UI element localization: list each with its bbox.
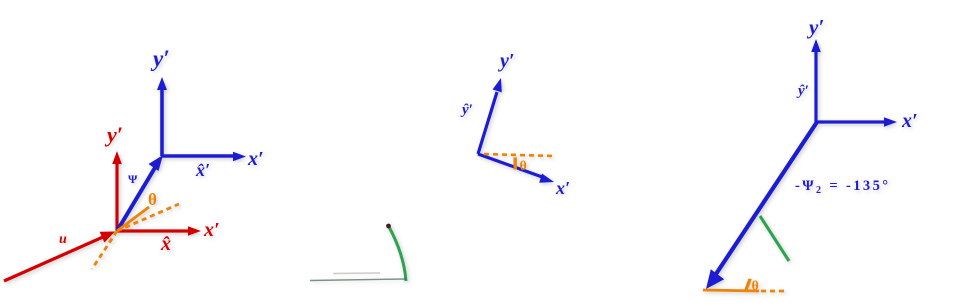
orange dashed extension (down-left) [92, 231, 117, 269]
svg-text:x̂: x̂ [160, 233, 171, 255]
dark point at top of green curve (panel 2) [386, 224, 391, 229]
axis y (red frame) [112, 151, 122, 231]
orange dashed ray (up-right) [117, 204, 179, 231]
orange dashed horizontal reference line (panel 2) [484, 154, 553, 156]
svg-text:-Ψ2 = -135°: -Ψ2 = -135° [795, 178, 890, 196]
orange baseline solid (panel 3) [703, 290, 759, 291]
svg-text:θ: θ [520, 159, 527, 174]
svg-text:u: u [59, 232, 67, 247]
axis y' (blue frame, panel 3) [811, 39, 821, 122]
green segment (panel 3) [760, 216, 789, 261]
svg-text:x′: x′ [203, 219, 220, 241]
svg-text:x̂′: x̂′ [195, 160, 210, 180]
faint maroon smear (panel 2) [333, 272, 380, 275]
axis x' (blue frame, panel 3) [817, 117, 897, 127]
svg-text:y′: y′ [806, 15, 824, 39]
axis y' (blue frame) [157, 77, 167, 156]
vector u (red) [4, 232, 115, 282]
svg-text:ŷ′: ŷ′ [460, 102, 473, 118]
svg-text:θ: θ [752, 279, 759, 294]
svg-text:x′: x′ [901, 110, 918, 132]
long vector (blue, panel 3) [706, 122, 817, 289]
svg-text:ŷ′: ŷ′ [796, 83, 809, 99]
axis x' tilted (blue frame, panel 2) [478, 154, 554, 183]
axis x (red frame) [117, 226, 201, 236]
axis y' tilted (blue frame, panel 2) [478, 78, 502, 154]
label Psi-t (orange, panel 3) [744, 279, 752, 291]
svg-text:x′: x′ [247, 148, 264, 170]
label minus theta (orange, panel 2) [514, 158, 517, 170]
svg-text:y′: y′ [498, 50, 515, 72]
svg-text:y′: y′ [104, 122, 123, 147]
orange baseline dashed (panel 3) [761, 290, 787, 293]
vector R (blue, from red origin to blue origin) [117, 155, 163, 231]
svg-text:θ: θ [148, 190, 157, 209]
orange solid ray at angle [117, 207, 149, 231]
svg-text:Ψ: Ψ [128, 172, 138, 186]
green curved trajectory (panel 2) [388, 225, 406, 281]
svg-text:y′: y′ [150, 46, 170, 71]
faint ground line (panel 2) [310, 279, 406, 281]
svg-text:x′: x′ [555, 178, 570, 198]
axis x' (blue frame) [162, 152, 246, 162]
